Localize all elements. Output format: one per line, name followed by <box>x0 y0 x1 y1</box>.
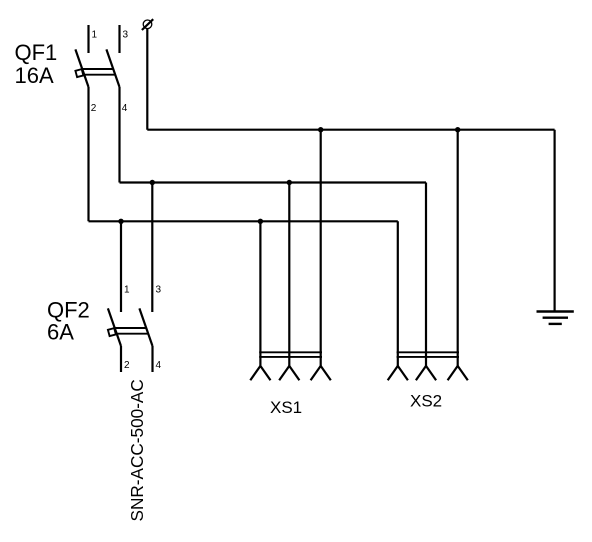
PE entry symbol (circle with slash) <box>143 20 152 29</box>
XS2 contact 3 fork <box>448 366 468 380</box>
QF1 mechanical link bar <box>82 69 116 75</box>
wire XS2 N drop <box>425 183 427 366</box>
svg-text:16A: 16A <box>15 63 54 88</box>
svg-text:1: 1 <box>124 285 130 296</box>
wire QF2 terminal 3 <box>151 183 153 313</box>
wire XS1 N drop <box>288 183 290 366</box>
QF1 trip box <box>75 69 83 77</box>
wire L bus <box>89 220 398 222</box>
breaker QF1 terminal 1 <box>87 25 89 53</box>
socket XS1 body <box>259 352 322 357</box>
XS1 contact 3 fork <box>311 366 331 380</box>
XS2 contact 1 fork <box>388 366 408 380</box>
wire PE bus <box>147 129 554 131</box>
QF2 trip box <box>108 328 116 336</box>
junction N bus / XS1 <box>287 180 292 185</box>
wire PE to ground <box>553 130 555 312</box>
svg-text:4: 4 <box>122 103 128 114</box>
wire XS2 PE drop <box>457 130 459 366</box>
svg-text:SNR-ACC-500-AC: SNR-ACC-500-AC <box>127 379 147 521</box>
svg-text:QF1: QF1 <box>15 40 58 65</box>
junction L bus / XS1 <box>258 219 263 224</box>
wire QF1 pin4 down <box>118 87 120 183</box>
XS1 contact 1 fork <box>250 366 270 380</box>
breaker QF1 terminal 3 <box>118 25 120 53</box>
QF2 terminal 4 stub <box>151 346 153 372</box>
junction L bus / QF2 pin1 <box>118 219 123 224</box>
wire N bus <box>120 181 427 183</box>
QF1 lever pole 1 <box>75 49 88 87</box>
wire XS1 PE drop <box>320 130 322 366</box>
wire PE entry drop <box>146 29 148 130</box>
svg-text:4: 4 <box>156 360 162 371</box>
XS1 contact 2 fork <box>279 366 299 380</box>
svg-text:2: 2 <box>124 360 130 371</box>
svg-text:3: 3 <box>123 30 129 41</box>
QF2 mechanical link bar <box>114 328 148 334</box>
wire QF2 terminal 1 <box>120 221 122 312</box>
svg-text:3: 3 <box>156 285 162 296</box>
svg-text:1: 1 <box>92 30 98 41</box>
wire QF1 pin2 down <box>87 87 89 221</box>
svg-text:6A: 6A <box>47 320 74 345</box>
QF2 terminal 2 stub <box>120 346 122 372</box>
socket XS2 body <box>397 352 459 357</box>
ground symbol <box>537 312 574 324</box>
junction N bus / QF2 pin3 <box>150 180 155 185</box>
QF2 lever pole 1 <box>108 308 121 346</box>
QF2 lever pole 2 <box>139 308 152 346</box>
svg-text:2: 2 <box>91 103 97 114</box>
XS2 contact 2 fork <box>416 366 436 380</box>
junction PE bus / XS1 <box>318 127 323 132</box>
wire XS1 L drop <box>259 221 261 366</box>
svg-text:XS1: XS1 <box>270 398 302 417</box>
QF1 lever pole 2 <box>106 49 119 87</box>
svg-text:XS2: XS2 <box>410 392 442 411</box>
junction PE bus / XS2 <box>455 127 460 132</box>
wire XS2 L drop <box>397 221 399 366</box>
